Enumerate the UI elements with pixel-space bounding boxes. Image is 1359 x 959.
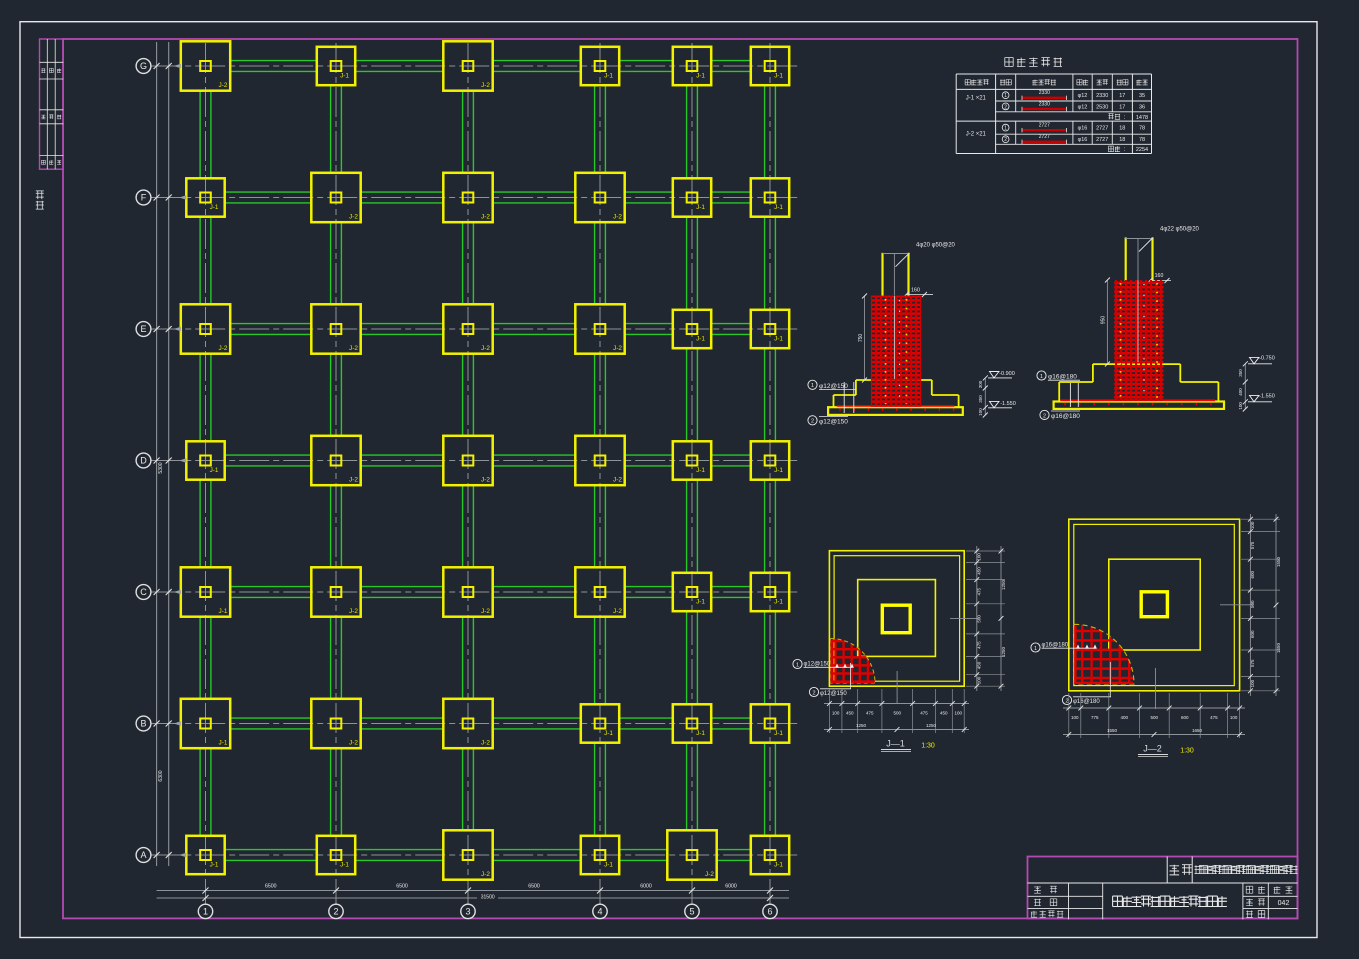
- rebar subtotal 1: [1108, 114, 1120, 120]
- svg-text:J-1: J-1: [774, 336, 783, 343]
- svg-text:600: 600: [1181, 715, 1189, 720]
- svg-text:400: 400: [1120, 715, 1128, 720]
- footing J-1 @G4: [581, 47, 619, 85]
- footing J-2 @B3: [443, 699, 492, 748]
- svg-text:1650: 1650: [1192, 728, 1203, 733]
- svg-text:500: 500: [977, 615, 982, 623]
- svg-text:1: 1: [796, 662, 799, 668]
- footing J-1 @C6: [751, 573, 789, 611]
- svg-text:φ12@150: φ12@150: [819, 419, 848, 426]
- svg-text:35: 35: [1139, 93, 1145, 99]
- svg-text:475: 475: [866, 711, 874, 716]
- footing J-2 @E1: [181, 304, 230, 353]
- footing J-1 @G5: [673, 47, 711, 85]
- svg-text:J-2: J-2: [349, 739, 358, 746]
- svg-text:J-1 ×21: J-1 ×21: [966, 96, 987, 102]
- svg-text:J-2: J-2: [613, 213, 622, 220]
- section detail J-1: [808, 243, 1016, 426]
- footing J-1 @B1: [181, 699, 230, 748]
- svg-text:1550: 1550: [1107, 728, 1118, 733]
- J-1 plan outer square: [829, 551, 964, 687]
- svg-text:6500: 6500: [396, 884, 408, 890]
- footing J-1 @B4: [581, 704, 619, 742]
- J-1 plan rebar quadrant: [831, 639, 876, 684]
- svg-text:J-1: J-1: [774, 862, 783, 869]
- svg-text:17: 17: [1119, 104, 1125, 110]
- svg-text:78: 78: [1139, 126, 1145, 132]
- svg-text:φ16@180: φ16@180: [1073, 699, 1100, 705]
- svg-text:1:30: 1:30: [1180, 748, 1194, 755]
- svg-text:3: 3: [465, 907, 470, 917]
- svg-text:2530: 2530: [1096, 104, 1108, 110]
- svg-text:6500: 6500: [265, 884, 277, 890]
- svg-text:2: 2: [811, 419, 814, 425]
- svg-text:J-2: J-2: [705, 871, 714, 878]
- svg-text:J-2: J-2: [613, 476, 622, 483]
- svg-text:750: 750: [858, 334, 864, 343]
- strip side text: [36, 191, 44, 199]
- rebar row 1: [1002, 92, 1009, 99]
- J-2 level marks: [1244, 364, 1246, 409]
- svg-text:2727: 2727: [1096, 126, 1108, 132]
- svg-text:100: 100: [1230, 715, 1238, 720]
- footing J-1 @D5: [673, 441, 711, 479]
- svg-text:950: 950: [1100, 316, 1106, 325]
- rebar row 2: [1002, 103, 1009, 110]
- svg-text:φ16@180: φ16@180: [1048, 374, 1077, 381]
- J-2 plan bottom dims: [1068, 693, 1070, 738]
- footing J-1 @F5: [673, 178, 711, 216]
- svg-text:φ12: φ12: [1078, 104, 1088, 110]
- J-1 plan centerline marks: [950, 617, 978, 619]
- svg-text:600: 600: [1250, 630, 1255, 638]
- J-2 rebar label 2: [1040, 410, 1049, 419]
- J-1 column leader: [893, 253, 895, 379]
- svg-text:450: 450: [977, 567, 982, 575]
- title block: right labels: [1246, 886, 1253, 893]
- svg-text:J-1: J-1: [219, 608, 228, 615]
- footing J-1 @D1: [186, 441, 224, 479]
- J-2 column shaft lines: [1125, 237, 1127, 281]
- svg-text:J-1: J-1: [774, 730, 783, 737]
- J-2 plan label 1: [1031, 643, 1040, 652]
- J-1 cage left dim: [864, 296, 866, 380]
- J-1 plan bottom dims: [828, 689, 830, 733]
- title block: left labels: [1034, 886, 1041, 893]
- svg-text:J-1: J-1: [696, 467, 705, 474]
- svg-text:18: 18: [1119, 126, 1125, 132]
- bottom dimension lines: [205, 881, 207, 902]
- svg-text:J-2: J-2: [349, 213, 358, 220]
- rebar subtotal 2: [1108, 146, 1120, 152]
- svg-text:J—2: J—2: [1143, 744, 1162, 754]
- axis leader arrows: [174, 64, 181, 68]
- svg-text:J-2: J-2: [349, 608, 358, 615]
- svg-text:78: 78: [1139, 137, 1145, 143]
- footing J-1 @C5: [673, 573, 711, 611]
- svg-text:J-1: J-1: [696, 336, 705, 343]
- svg-text:φ12: φ12: [1078, 93, 1088, 99]
- svg-text:300: 300: [978, 380, 983, 388]
- footing J-2 @B2: [311, 699, 360, 748]
- svg-text:600: 600: [1250, 570, 1255, 578]
- svg-text:2727: 2727: [1039, 134, 1050, 140]
- svg-text:575: 575: [1250, 659, 1255, 667]
- rebar table: [956, 58, 1151, 154]
- footing J-2 @G3: [443, 41, 492, 90]
- footing J-1 @B5: [673, 704, 711, 742]
- svg-text:J-1: J-1: [340, 73, 349, 80]
- svg-text:100: 100: [832, 711, 840, 716]
- svg-text:2254: 2254: [1136, 147, 1148, 153]
- svg-text:6300: 6300: [158, 770, 164, 781]
- svg-text:36: 36: [1139, 104, 1145, 110]
- footing J-2 @D3: [443, 436, 492, 485]
- svg-text:400: 400: [1238, 388, 1243, 396]
- svg-text:2: 2: [812, 690, 815, 696]
- J-1 bottom rebar line: [837, 405, 955, 407]
- J-1 column shaft lines: [881, 253, 883, 297]
- svg-text:φ16@180: φ16@180: [1042, 643, 1069, 649]
- svg-text:475: 475: [1210, 715, 1218, 720]
- svg-text:1: 1: [1040, 374, 1043, 380]
- J-2 rebar label 1: [1069, 383, 1071, 407]
- footing J-2 @A3: [443, 830, 492, 879]
- J-1 level marks: [984, 378, 986, 415]
- svg-text:5: 5: [689, 907, 694, 917]
- footing J-2 @E3: [443, 304, 492, 353]
- svg-text:160: 160: [1155, 273, 1164, 279]
- footing J-1 @D6: [751, 441, 789, 479]
- svg-text:160: 160: [911, 287, 920, 293]
- svg-text:100: 100: [977, 553, 982, 561]
- svg-text:J-2: J-2: [219, 345, 228, 352]
- footing J-1 @B6: [751, 704, 789, 742]
- svg-text:-0.750: -0.750: [1259, 356, 1275, 362]
- svg-text:E: E: [140, 324, 146, 334]
- svg-text:1250: 1250: [856, 723, 867, 728]
- svg-text:J-2: J-2: [349, 476, 358, 483]
- svg-text:1478: 1478: [1136, 115, 1148, 121]
- J-2 cage left dim: [1106, 280, 1108, 364]
- svg-text:φ16: φ16: [1078, 126, 1088, 132]
- J-2 plan outer square: [1069, 519, 1240, 691]
- svg-text:450: 450: [940, 711, 948, 716]
- footing J-1 @E6: [751, 310, 789, 348]
- title block: company name: [1195, 865, 1298, 873]
- footing J-2 @F3: [443, 173, 492, 222]
- svg-text:475: 475: [977, 641, 982, 649]
- svg-text:2: 2: [1004, 104, 1007, 110]
- footing J-1 @E5: [673, 310, 711, 348]
- J-1 column rebar cage: [871, 296, 921, 407]
- svg-text:J-1: J-1: [604, 862, 613, 869]
- svg-text:475: 475: [920, 711, 928, 716]
- svg-text:1250: 1250: [1001, 579, 1006, 590]
- J-2 bottom rebar line: [1060, 399, 1215, 401]
- svg-text:J-2: J-2: [481, 82, 490, 89]
- svg-text:2330: 2330: [1039, 90, 1050, 96]
- svg-text:2727: 2727: [1096, 137, 1108, 143]
- svg-text:1550: 1550: [1276, 642, 1281, 653]
- svg-text:J-1: J-1: [696, 204, 705, 211]
- footing J-1 @G2: [317, 47, 355, 85]
- svg-text:2: 2: [1065, 698, 1068, 704]
- svg-text:1250: 1250: [1001, 646, 1006, 657]
- axis centerlines: [151, 65, 801, 67]
- J-1 plan right dims: [966, 550, 1005, 552]
- plan detail J-1: [793, 546, 1006, 752]
- footing J-2 @E2: [311, 304, 360, 353]
- svg-text:500: 500: [1250, 600, 1255, 608]
- svg-text:G: G: [140, 61, 147, 71]
- svg-text:18: 18: [1119, 137, 1125, 143]
- J-2 plan rebar quadrant: [1074, 624, 1134, 684]
- svg-text:B: B: [140, 719, 146, 729]
- svg-text:475: 475: [977, 587, 982, 595]
- svg-text:1250: 1250: [926, 723, 937, 728]
- J-1 rebar label 1: [843, 382, 845, 413]
- column axis bubbles: [198, 904, 212, 918]
- title block: ti mu: [1170, 865, 1180, 875]
- title block: [1028, 857, 1298, 920]
- svg-text:2330: 2330: [1039, 101, 1050, 107]
- J-2 plan right dims: [1241, 518, 1280, 520]
- rebar table grid: [956, 73, 1151, 75]
- svg-text:6500: 6500: [528, 884, 540, 890]
- svg-text:5300: 5300: [158, 462, 164, 473]
- svg-text:100: 100: [954, 711, 962, 716]
- svg-text:500: 500: [893, 711, 901, 716]
- J-1 plan middle square: [858, 580, 936, 657]
- J-2 plan column: [1141, 592, 1167, 617]
- svg-text:350: 350: [978, 395, 983, 403]
- title block: right values: [1274, 886, 1281, 893]
- svg-text:2330: 2330: [1096, 93, 1108, 99]
- svg-text:J—1: J—1: [886, 739, 905, 749]
- svg-text:F: F: [141, 193, 147, 203]
- svg-text:J-1: J-1: [774, 599, 783, 606]
- grade beams (green): [230, 60, 317, 62]
- svg-text:J-1: J-1: [774, 73, 783, 80]
- svg-text:500: 500: [1151, 715, 1159, 720]
- J-2 plan middle square: [1109, 559, 1200, 650]
- svg-text:1: 1: [1004, 93, 1007, 99]
- svg-text:1: 1: [203, 907, 208, 917]
- svg-text:100: 100: [977, 676, 982, 684]
- svg-text:φ12@150: φ12@150: [819, 383, 848, 390]
- svg-text:J-1: J-1: [604, 73, 613, 80]
- footing J-1 @G6: [751, 47, 789, 85]
- svg-text:4: 4: [597, 907, 602, 917]
- svg-text:2: 2: [1004, 137, 1007, 143]
- footing J-2 @C2: [311, 567, 360, 616]
- rebar table headers: [965, 80, 989, 85]
- svg-text:2: 2: [333, 907, 338, 917]
- svg-text:350: 350: [1238, 369, 1243, 377]
- svg-text:100: 100: [1250, 679, 1255, 687]
- svg-text:φ16@180: φ16@180: [1051, 413, 1080, 420]
- svg-text:J-1: J-1: [774, 467, 783, 474]
- svg-text:1: 1: [1034, 646, 1037, 652]
- J-2 column rebar cage: [1114, 280, 1163, 401]
- svg-text:J-1: J-1: [696, 599, 705, 606]
- svg-text:4φ20 φ50@20: 4φ20 φ50@20: [916, 243, 956, 249]
- title block lines: [1028, 882, 1298, 884]
- svg-text:J-2: J-2: [481, 213, 490, 220]
- J-2 plan centerline marks: [1220, 604, 1253, 606]
- row axis bubbles: [136, 59, 151, 74]
- svg-text:17: 17: [1119, 93, 1125, 99]
- svg-text:J-1: J-1: [604, 730, 613, 737]
- svg-text:775: 775: [1091, 715, 1099, 720]
- svg-text:450: 450: [846, 711, 854, 716]
- svg-text:450: 450: [977, 661, 982, 669]
- footing J-1 @A1: [186, 836, 224, 874]
- footing J-2 @F2: [311, 173, 360, 222]
- footing J-2 @C3: [443, 567, 492, 616]
- footing J-1 @C1: [181, 567, 230, 616]
- svg-text:J-2: J-2: [481, 476, 490, 483]
- svg-text:575: 575: [1250, 541, 1255, 549]
- svg-text:-1.550: -1.550: [1259, 394, 1275, 400]
- J-2 footing outline: [1093, 363, 1180, 365]
- footing J-2 @G1: [181, 41, 230, 90]
- J-1 plan column: [882, 605, 910, 633]
- svg-text:6000: 6000: [725, 884, 737, 890]
- svg-text:J-2 ×21: J-2 ×21: [966, 132, 987, 138]
- svg-text:J-1: J-1: [219, 739, 228, 746]
- rebar row 4: [1002, 136, 1009, 143]
- svg-text:J-1: J-1: [696, 73, 705, 80]
- svg-text:J-2: J-2: [349, 345, 358, 352]
- svg-text:100: 100: [1071, 715, 1079, 720]
- rebar row 3: [1002, 124, 1009, 131]
- footing J-2 @C4: [575, 567, 624, 616]
- svg-text:1: 1: [811, 383, 814, 389]
- svg-text:4φ22 φ50@20: 4φ22 φ50@20: [1160, 227, 1200, 233]
- svg-text:C: C: [140, 587, 147, 597]
- svg-text:1:30: 1:30: [921, 743, 935, 750]
- svg-text:J-1: J-1: [696, 730, 705, 737]
- svg-text:2: 2: [1043, 413, 1046, 419]
- J-2 plan label 2: [1109, 662, 1111, 697]
- svg-text:D: D: [140, 456, 147, 466]
- svg-text:31500: 31500: [481, 895, 495, 901]
- svg-text:1: 1: [1004, 126, 1007, 132]
- svg-text:J-1: J-1: [340, 862, 349, 869]
- J-1 footing outline: [856, 379, 932, 381]
- svg-text:2727: 2727: [1039, 123, 1050, 129]
- svg-text:6: 6: [767, 907, 772, 917]
- footing J-2 @D2: [311, 436, 360, 485]
- plan detail J-2: [1031, 514, 1281, 757]
- svg-text:6000: 6000: [640, 884, 652, 890]
- footing J-1 @A6: [751, 836, 789, 874]
- svg-text:100: 100: [1238, 402, 1243, 410]
- section detail J-2: [1037, 227, 1275, 420]
- svg-text:J-2: J-2: [613, 345, 622, 352]
- signature strip top-left: [40, 39, 64, 169]
- title block: drawing title: [1113, 896, 1227, 906]
- footing J-2 @F4: [575, 173, 624, 222]
- svg-text:J-1: J-1: [210, 467, 219, 474]
- svg-text:-0.900: -0.900: [999, 371, 1015, 377]
- svg-text:100: 100: [978, 408, 983, 416]
- svg-text:φ16: φ16: [1078, 137, 1088, 143]
- left dimension lines: [156, 42, 158, 866]
- J-1 rebar label 2: [808, 416, 817, 425]
- svg-text:J-2: J-2: [481, 739, 490, 746]
- J-2 column leader: [1137, 238, 1139, 362]
- svg-text:J-1: J-1: [210, 204, 219, 211]
- svg-text:φ12@150: φ12@150: [804, 662, 831, 668]
- footing J-1 @F1: [186, 178, 224, 216]
- footing J-2 @D4: [575, 436, 624, 485]
- J-2 base slab: [1054, 402, 1224, 409]
- footing J-2 @A5: [667, 830, 716, 879]
- svg-text:J-2: J-2: [481, 871, 490, 878]
- svg-text:J-2: J-2: [613, 608, 622, 615]
- svg-text:J-2: J-2: [219, 82, 228, 89]
- J-1 plan label 1: [793, 659, 802, 668]
- svg-text:J-1: J-1: [774, 204, 783, 211]
- rebar table title: [1005, 58, 1062, 67]
- svg-text:A: A: [140, 850, 146, 860]
- J-1 plan label 2: [850, 663, 852, 689]
- svg-text:φ12@150: φ12@150: [820, 691, 847, 697]
- footing J-2 @E4: [575, 304, 624, 353]
- svg-text:-1.550: -1.550: [1000, 401, 1016, 407]
- footing J-1 @A4: [581, 836, 619, 874]
- svg-text:J-2: J-2: [481, 608, 490, 615]
- footing J-1 @A2: [317, 836, 355, 874]
- svg-text:042: 042: [1278, 900, 1290, 907]
- footing J-1 @F6: [751, 178, 789, 216]
- svg-text:J-2: J-2: [481, 345, 490, 352]
- svg-text:J-1: J-1: [210, 862, 219, 869]
- svg-text:100: 100: [1250, 521, 1255, 529]
- J-1 base slab: [828, 407, 963, 415]
- svg-text:1550: 1550: [1276, 556, 1281, 567]
